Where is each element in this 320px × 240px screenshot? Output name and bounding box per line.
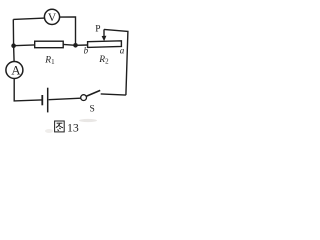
ammeter (circle) <box>6 62 23 79</box>
label A (ammeter letter) <box>11 63 21 78</box>
wire battery to bottom-left corner <box>14 79 41 101</box>
label b <box>84 45 89 55</box>
caption text 13 <box>67 120 79 134</box>
wire slider P to top-right corner and down right side <box>104 29 128 95</box>
label P <box>95 25 100 35</box>
resistor R1 (box) <box>35 41 64 48</box>
label a <box>120 45 125 55</box>
background <box>0 0 139 137</box>
svg-text:A: A <box>11 63 21 78</box>
node junction left (dot) <box>11 43 16 48</box>
wire top-left (top-left corner to voltmeter) <box>13 18 45 19</box>
label V (voltmeter letter) <box>48 12 57 24</box>
svg-text:V: V <box>48 12 57 24</box>
svg-text:a: a <box>120 45 125 55</box>
wire bottom-right (corner to switch contact) <box>101 94 126 95</box>
wire R1 to junction b <box>63 43 75 46</box>
rheostat slider arrow P <box>102 29 107 41</box>
voltmeter U (circle) <box>44 9 59 24</box>
caption glyph 图 (hand-drawn) <box>55 121 65 132</box>
resistor R2 rheostat (box) <box>88 41 122 48</box>
svg-text:b: b <box>84 45 89 55</box>
battery (two plates) <box>42 88 47 113</box>
label R1 <box>44 55 55 66</box>
wire left junction to R1 <box>14 44 35 47</box>
label R2 <box>98 55 109 66</box>
svg-text:P: P <box>95 25 100 35</box>
node junction right b (dot) <box>73 43 78 48</box>
wire left side (top corner down through junction to ammeter) <box>12 19 15 61</box>
wire voltmeter right to junction B <box>60 17 76 45</box>
wire junction b to R2 <box>76 44 88 46</box>
switch S (pivot circle and lever) <box>81 90 101 100</box>
svg-text:13: 13 <box>67 120 79 134</box>
wire switch to battery <box>49 98 81 100</box>
svg-text:S: S <box>90 105 95 115</box>
scan smudge <box>45 119 97 133</box>
label S <box>90 105 95 115</box>
